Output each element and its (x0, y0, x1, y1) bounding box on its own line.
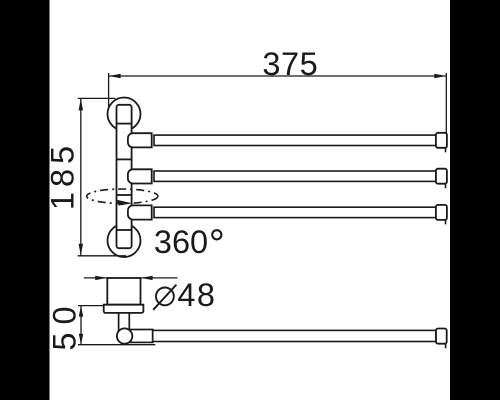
bottom pivot circle (108, 224, 141, 257)
dimension 185 line (80, 98, 82, 255)
pivot stem left line (118, 313, 120, 331)
arm 3 hinge sleeve (128, 205, 152, 219)
diameter 48 dimension left arrow (95, 276, 107, 280)
side arm end cap tick (445, 344, 447, 349)
pivot ball (117, 328, 132, 343)
rotation arrow (117, 200, 132, 206)
dimension 375 right arrow (434, 74, 446, 78)
top pivot circle (108, 98, 141, 131)
side arm sleeve (127, 330, 153, 343)
arm 2 tube (154, 171, 436, 181)
post divider 4 (117, 229, 132, 231)
dimension 375 line (109, 75, 447, 77)
arm 1 hinge sleeve (128, 133, 152, 147)
diameter symbol (156, 288, 174, 306)
dimension 185 top extension line (78, 97, 116, 99)
post divider 2 (117, 158, 132, 160)
arm 2 hinge sleeve (128, 169, 152, 183)
post body (117, 105, 132, 248)
dimension 50 top extension line (78, 305, 104, 307)
diameter 48 dimension left line (84, 277, 107, 279)
diameter 48 dimension right arrow (141, 276, 153, 280)
arm 3 end cap tick (445, 220, 447, 225)
arm 1 end cap tick (445, 148, 447, 153)
dimension 375 left arrow (109, 74, 121, 78)
arm 2 end cap (436, 169, 447, 184)
svg-text:50: 50 (47, 298, 83, 350)
arm 3 tube (154, 207, 436, 217)
side arm end cap (436, 329, 447, 344)
arm 2 end cap tick (445, 184, 447, 189)
diameter symbol slash (153, 285, 176, 310)
diameter 48 dimension right line (141, 277, 178, 279)
dimension 50 top arrow (79, 306, 83, 317)
degree symbol (212, 230, 221, 239)
dimension 50 bottom extension line (78, 344, 155, 346)
svg-text:360: 360 (154, 224, 208, 260)
dimension 375 right extension line (445, 73, 447, 133)
wall flange body (107, 278, 140, 305)
dimension 375 left extension line (108, 73, 110, 107)
side arm tube (153, 330, 436, 341)
post divider 1 (117, 123, 132, 125)
arm 1 end cap (436, 133, 447, 148)
arm 3 end cap (436, 205, 447, 220)
dimension 50 bottom arrow (79, 334, 83, 345)
dimension 185 top arrow (79, 98, 83, 110)
svg-text:375: 375 (262, 46, 318, 82)
svg-text:48: 48 (177, 277, 216, 313)
dimension 185 bottom arrow (79, 244, 83, 256)
dimension 50 line (80, 306, 82, 345)
arm 1 tube (154, 135, 436, 145)
svg-text:185: 185 (44, 141, 80, 210)
rotation ellipse (87, 189, 158, 203)
pivot stem right line (128, 313, 130, 331)
dimension 185 bottom extension line (78, 255, 126, 257)
wall flange collar (104, 305, 144, 313)
post divider 3 (117, 194, 132, 196)
